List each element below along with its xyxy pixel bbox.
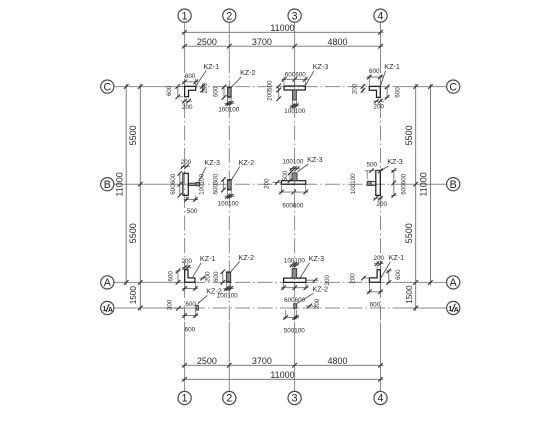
svg-text:200: 200 <box>350 273 357 284</box>
dim 200 bottom of KZ-1 C/4 <box>373 99 385 111</box>
svg-text:4: 4 <box>378 393 384 405</box>
svg-text:11000: 11000 <box>418 172 428 196</box>
dim line 600 below KZ-1 A/1 <box>182 283 198 291</box>
svg-text:A: A <box>104 277 112 289</box>
svg-text:11000: 11000 <box>115 172 125 196</box>
top dimension line 2500/3700/4800 <box>182 37 384 49</box>
dim 600/600 bottom of KZ-3 B/3 <box>279 185 309 209</box>
label KZ-2 for column B/2 <box>231 158 254 180</box>
svg-text:11000: 11000 <box>270 23 294 33</box>
grid bubble C (left) <box>101 80 114 93</box>
dim 100/100 top of KZ-3 B/3 <box>282 159 304 171</box>
grid bubble A (left) <box>101 276 114 289</box>
svg-text:100100: 100100 <box>350 173 357 195</box>
dim 200 left of KZ-1 A/4 <box>350 273 370 284</box>
dim 600 right of KZ-1 A/4 <box>386 269 402 285</box>
column KZ-1 at A/4 (L-shape mirrored leg up) <box>369 270 380 283</box>
dim 600 top of KZ-1 C/4 <box>367 68 383 86</box>
svg-text:600600: 600600 <box>285 71 307 78</box>
svg-text:5500: 5500 <box>404 125 414 145</box>
dim 500 bottom of KZ-3 B/1 <box>184 196 198 215</box>
dim 200 right of KZ-1 C/1 <box>200 82 209 93</box>
column KZ-2 at B/2 (rect section) <box>227 180 231 191</box>
dim 500/100 below 1/A-3 <box>283 310 305 335</box>
grid bubble 4 (bottom) <box>374 391 387 404</box>
svg-text:600: 600 <box>213 271 220 282</box>
svg-text:600: 600 <box>369 68 380 75</box>
left dimension line 5500/5500/1500 <box>128 84 142 311</box>
svg-text:C: C <box>449 81 457 93</box>
svg-text:600: 600 <box>395 87 402 98</box>
svg-text:600: 600 <box>185 73 196 80</box>
dim 100/100 bottom of KZ-3 C/3 <box>284 100 306 115</box>
top dimension line 11000 <box>182 23 384 35</box>
svg-text:A: A <box>454 307 459 314</box>
svg-text:1500: 1500 <box>129 286 138 305</box>
svg-text:600600: 600600 <box>170 173 177 195</box>
label KZ-3 for column A/3 <box>299 254 324 279</box>
svg-text:C: C <box>103 81 111 93</box>
svg-text:2500: 2500 <box>197 37 217 47</box>
grid bubble 2 (top) <box>223 9 236 22</box>
svg-text:500: 500 <box>282 170 289 181</box>
dim 500/200 left of KZ-3 C/3 <box>266 80 281 101</box>
svg-text:600600: 600600 <box>282 202 304 209</box>
svg-text:600: 600 <box>370 302 381 309</box>
svg-text:100100: 100100 <box>218 106 240 113</box>
dim 600 below KZ-1 A/4 <box>367 283 383 309</box>
grid bubble B (left) <box>101 178 114 191</box>
dim 100/100 bottom of KZ-2 C/2 <box>218 98 240 114</box>
svg-text:2500: 2500 <box>197 356 217 366</box>
label KZ-2 for column A/2 <box>231 253 254 272</box>
column KZ-2 at C/2 (rect section) <box>227 87 231 98</box>
column KZ-3 at B/4 (T-shape stem left) <box>367 170 380 195</box>
dim 600 below 1/A-1 <box>182 310 198 334</box>
grid line 1 (vertical axis) <box>184 22 186 391</box>
svg-text:600: 600 <box>166 85 173 96</box>
bottom dimension line 2500/3700/4800 <box>182 356 384 368</box>
dim 200 right of KZ-3 A/3 <box>307 274 331 285</box>
svg-text:200: 200 <box>314 298 321 309</box>
svg-text:200: 200 <box>352 83 359 94</box>
column KZ-1 at C/1 (L-shape) <box>185 86 196 96</box>
svg-text:200: 200 <box>266 90 273 101</box>
svg-text:B: B <box>450 179 457 191</box>
grid line 4 (vertical axis) <box>380 22 382 391</box>
svg-text:5500: 5500 <box>128 223 138 243</box>
column KZ-2 at A/2 (rect section) <box>226 272 230 283</box>
svg-text:200: 200 <box>264 178 271 189</box>
label KZ-2 for column 1/A-3 <box>297 285 328 304</box>
dim 600/600 top of KZ-3 C/3 <box>281 71 308 85</box>
svg-text:3: 3 <box>292 10 298 22</box>
svg-text:KZ-3: KZ-3 <box>387 157 403 166</box>
grid line B (horizontal axis) <box>114 183 447 185</box>
svg-text:500100: 500100 <box>284 328 306 335</box>
dim 600 top of KZ-1 C/1 <box>182 73 198 86</box>
svg-text:500: 500 <box>266 80 273 91</box>
label KZ-1 for column C/1 <box>196 62 219 86</box>
svg-text:KZ-2: KZ-2 <box>312 285 328 294</box>
label KZ-3 for column C/3 <box>305 62 328 85</box>
column KZ-1 at A/1 (L-shape leg up) <box>185 270 195 283</box>
svg-text:200: 200 <box>182 258 193 265</box>
label KZ-1 for column A/4 <box>381 253 404 278</box>
svg-text:100100: 100100 <box>282 159 304 166</box>
dim 200 left of KZ-3 B/3 <box>264 178 282 189</box>
dim 200 left of KZ-1 C/4 <box>352 83 366 94</box>
dim 600/600 below KZ-3 A/3 <box>281 283 309 304</box>
svg-text:2: 2 <box>226 10 232 22</box>
svg-text:2: 2 <box>226 393 232 405</box>
svg-text:A: A <box>108 307 113 314</box>
left dimension line 11000 <box>115 84 129 286</box>
svg-text:KZ-1: KZ-1 <box>384 62 400 71</box>
svg-text:600: 600 <box>185 301 196 308</box>
grid bubble 1 (top) <box>178 9 191 22</box>
label KZ-3 for column B/4 <box>381 157 403 171</box>
dim 600 right of KZ-1 C/4 <box>385 85 402 100</box>
svg-text:600: 600 <box>395 269 402 280</box>
svg-text:5500: 5500 <box>128 125 138 145</box>
svg-text:600: 600 <box>213 183 220 194</box>
svg-text:200: 200 <box>205 271 212 282</box>
dim 600/600 left of KZ-3 B/1 <box>170 171 182 198</box>
svg-text:5500: 5500 <box>404 223 414 243</box>
grid bubble 3 (bottom) <box>288 391 301 404</box>
dim 600 left of KZ-1 A/1 <box>167 269 180 285</box>
svg-text:200: 200 <box>374 104 385 111</box>
grid line C (horizontal axis) <box>114 86 447 88</box>
bottom dimension line 11000 <box>182 370 384 382</box>
label KZ-2 for column C/2 <box>232 68 256 87</box>
svg-text:11000: 11000 <box>270 370 294 380</box>
svg-text:3: 3 <box>292 393 298 405</box>
grid bubble 2 (bottom) <box>223 391 236 404</box>
svg-text:300: 300 <box>213 173 220 184</box>
svg-text:1500: 1500 <box>405 285 414 304</box>
dim 200 top of KZ-1 A/1 <box>182 258 193 270</box>
dim 600 above 1/A-1 <box>185 301 196 308</box>
dim 300 left of 1/A-1 <box>166 299 184 310</box>
label KZ-2 for column 1/A-1 <box>198 287 222 304</box>
svg-text:300: 300 <box>166 299 173 310</box>
column KZ-3 at B/3 (T-shape stem up) <box>281 173 305 184</box>
dim 500 left of stem KZ-3 B/3 <box>282 170 292 183</box>
svg-text:KZ-3: KZ-3 <box>309 254 325 263</box>
label KZ-1 for column C/4 <box>380 62 400 88</box>
dim 600 left of KZ-2 C/2 <box>213 85 227 100</box>
column KZ-2 at 1/A-3 (rect section) <box>294 304 297 309</box>
svg-text:200: 200 <box>182 104 193 111</box>
dim 500 top of KZ-3 B/4 <box>365 161 383 179</box>
svg-text:600: 600 <box>213 86 220 97</box>
dim 100/100 top of KZ-3 A/3 <box>284 257 306 267</box>
svg-text:200: 200 <box>181 159 192 166</box>
label KZ-1 for column A/1 <box>193 254 216 277</box>
svg-text:KZ-2: KZ-2 <box>240 68 256 77</box>
dim 600/600 right of KZ-3 B/4 <box>391 168 407 198</box>
label KZ-3 for column B/1 <box>199 158 220 182</box>
svg-text:4: 4 <box>378 10 384 22</box>
svg-text:B: B <box>104 179 111 191</box>
dim 300/600 left of KZ-2 B/2 <box>213 173 226 194</box>
grid line A (horizontal axis) <box>114 281 447 283</box>
dim 100/100 bottom of KZ-2 A/2 <box>217 283 239 299</box>
grid line 1/A (horizontal axis) <box>114 307 447 309</box>
svg-text:KZ-1: KZ-1 <box>389 253 405 262</box>
dim 200 bottom of KZ-1 C/1 <box>181 99 193 111</box>
dim 100/100 right of KZ-3 B/1 <box>198 173 205 195</box>
dim 200 bottom of KZ-3 B/4 <box>373 196 387 208</box>
column KZ-2 at 1/A-1 (rect section) <box>196 305 199 310</box>
svg-text:KZ-3: KZ-3 <box>204 158 220 167</box>
svg-text:100100: 100100 <box>284 108 306 115</box>
svg-text:KZ-1: KZ-1 <box>200 254 216 263</box>
svg-text:500: 500 <box>366 161 377 168</box>
dim 100/100 left of KZ-3 B/4 <box>350 173 357 195</box>
svg-text:600600: 600600 <box>400 173 407 195</box>
label KZ-3 for column B/3 <box>297 155 322 172</box>
grid bubble A (right) <box>447 276 460 289</box>
dim 100/100 bottom of KZ-2 B/2 <box>218 190 240 207</box>
svg-text:KZ-2: KZ-2 <box>239 158 255 167</box>
svg-text:100100: 100100 <box>284 257 306 264</box>
svg-text:KZ-2: KZ-2 <box>238 253 254 262</box>
dim 200 top of KZ-3 B/1 <box>181 159 192 169</box>
right dimension line 5500/5500/1500 <box>404 84 418 311</box>
dim 600 left of KZ-2 A/2 <box>213 270 225 285</box>
svg-text:4800: 4800 <box>327 356 347 366</box>
dim 200 top of KZ-1 A/4 <box>373 255 384 269</box>
svg-text:1: 1 <box>182 10 188 22</box>
dim 600 left of KZ-1 C/1 <box>166 84 183 99</box>
svg-text:KZ-2: KZ-2 <box>206 287 222 296</box>
svg-text:100100: 100100 <box>218 200 240 207</box>
grid bubble 1/A (right) <box>447 301 460 314</box>
svg-text:200: 200 <box>373 255 384 262</box>
grid bubble 3 (top) <box>288 9 301 22</box>
dim 200 right of KZ-1 A/1 <box>199 271 211 282</box>
svg-text:1: 1 <box>182 393 188 405</box>
column KZ-3 at A/3 (T-shape stem up) <box>284 269 306 283</box>
svg-text:4800: 4800 <box>327 37 347 47</box>
grid bubble 1/A (left) <box>101 301 114 314</box>
svg-text:3700: 3700 <box>252 356 272 366</box>
right dimension line 11000 <box>418 84 432 286</box>
svg-text:KZ-3: KZ-3 <box>313 62 329 71</box>
column KZ-3 at C/3 (T-shape) <box>284 86 305 100</box>
svg-text:200: 200 <box>376 201 387 208</box>
svg-text:KZ-1: KZ-1 <box>204 62 220 71</box>
grid bubble C (right) <box>447 80 460 93</box>
dim 200 right of 1/A-3 <box>306 298 321 309</box>
grid line 2 (vertical axis) <box>228 22 230 391</box>
svg-text:600: 600 <box>167 271 174 282</box>
grid line 3 (vertical axis) <box>294 22 296 391</box>
grid bubble B (right) <box>447 178 460 191</box>
svg-text:A: A <box>450 277 458 289</box>
svg-text:3700: 3700 <box>252 37 272 47</box>
grid bubble 4 (top) <box>374 9 387 22</box>
svg-text:500: 500 <box>187 208 198 215</box>
column KZ-1 at C/4 (L-shape mirrored) <box>369 86 380 97</box>
svg-text:600: 600 <box>185 327 196 334</box>
column KZ-3 at B/1 (T-shape stem right) <box>183 173 200 195</box>
svg-text:KZ-3: KZ-3 <box>307 155 323 164</box>
svg-text:200: 200 <box>202 82 209 93</box>
grid bubble 1 (bottom) <box>178 391 191 404</box>
